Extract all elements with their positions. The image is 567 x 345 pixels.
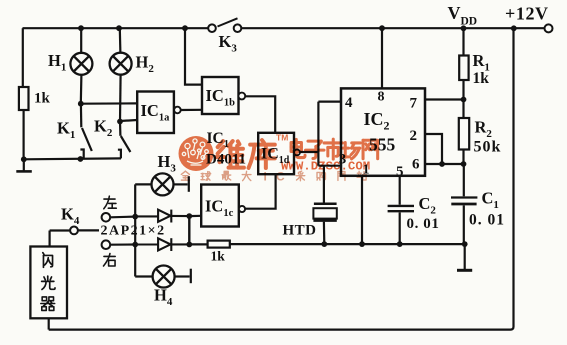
watermark text 场 — [342, 143, 360, 159]
watermark text 子 — [306, 141, 324, 158]
wire: ground return rail (bottom of 555 section) — [230, 243, 465, 245]
watermark text 市 — [324, 139, 342, 159]
watermark slogan 全球最大IC采购网站 — [181, 170, 366, 184]
wire: IC1d output node to 555 pins 3 and 4 — [300, 102, 341, 166]
svg-text:TM: TM — [276, 133, 288, 143]
label IC2 — [364, 109, 390, 133]
wire: bottom return rail to +12V right rail — [49, 28, 514, 329]
pin 2 — [410, 128, 418, 144]
switch K2 — [118, 122, 130, 159]
label 1k — [473, 70, 490, 87]
junction dot — [132, 242, 138, 248]
wire: K4 down to flasher box — [48, 231, 50, 247]
WATERMARK — [179, 133, 378, 184]
lamp H4 — [135, 269, 191, 284]
capacitor C2 — [388, 176, 414, 244]
junction dot H2 top — [116, 25, 122, 31]
wire: IC1a input 2 — [120, 120, 137, 121]
ground (right) — [457, 244, 472, 270]
wire: 左 to diode node — [110, 216, 135, 219]
wire: top supply rail left section — [23, 27, 209, 29]
label IC1 — [207, 130, 229, 150]
svg-text:4: 4 — [345, 95, 353, 111]
label 2AP21×2 — [101, 224, 166, 239]
resistor R2 — [459, 118, 469, 150]
svg-text:2AP21×2: 2AP21×2 — [101, 224, 166, 239]
lamp H1 — [70, 53, 92, 75]
svg-text:1k: 1k — [473, 70, 490, 87]
gate IC1a — [137, 92, 181, 134]
lamp H2 — [110, 53, 132, 75]
pin 4 — [345, 95, 353, 111]
label 0.01 — [469, 212, 505, 229]
wire: diode node to resistor 1k — [189, 243, 207, 245]
label 1k — [34, 91, 51, 107]
label 闪 — [43, 253, 53, 268]
label H2 — [136, 53, 155, 76]
wire: H1 bottom lead — [80, 75, 83, 104]
label IC1a — [141, 101, 171, 124]
label 555 — [369, 135, 396, 155]
wire: IC1b output to IC1d top input — [245, 96, 275, 133]
buzzer HTD — [313, 166, 336, 244]
node 左 terminal — [102, 213, 111, 222]
svg-text:0. 01: 0. 01 — [469, 212, 505, 229]
pin 3 — [339, 152, 347, 168]
wire: pin 8 to supply rail — [381, 28, 383, 88]
diode D1 (left turn) — [135, 210, 189, 223]
junction dot node H1/K1 — [78, 101, 84, 107]
svg-text:7: 7 — [410, 96, 418, 112]
wire: IC1a input 1 — [81, 102, 137, 104]
wire: flasher bottom lead — [48, 318, 50, 329]
label 1k — [211, 249, 226, 264]
wire: H2 top lead — [119, 28, 122, 53]
pin 6 — [412, 157, 420, 173]
svg-text:6: 6 — [412, 157, 420, 173]
gate IC1b — [202, 77, 245, 114]
wire: pin 7 to R1/R2 node — [425, 98, 464, 100]
wire: diode node into IC1c input — [189, 215, 201, 218]
label 器 — [41, 297, 55, 311]
pin 1 — [363, 163, 370, 178]
label K4 — [61, 205, 80, 228]
switch K1 — [80, 104, 91, 159]
svg-text:I: I — [264, 170, 267, 184]
resistor 1k (bottom, horizontal) — [208, 241, 230, 248]
label 光 — [42, 276, 55, 289]
watermark url WWW.DZSC.COM — [281, 159, 370, 173]
label IC1c — [205, 197, 234, 220]
wire: R1 bottom to node — [462, 80, 464, 118]
label VDD — [448, 3, 478, 28]
junction dot C1/ground — [462, 241, 468, 247]
node: +12V terminal — [545, 24, 553, 32]
wire: pin 1 down to ground rail — [361, 176, 363, 244]
wire: pin 6 to node — [425, 163, 464, 165]
label C1 — [482, 189, 499, 212]
junction dot pin7 node — [461, 97, 467, 103]
watermark text 库 — [249, 140, 275, 168]
wire: 右 to diode node — [110, 243, 135, 245]
switch K4 — [50, 227, 99, 235]
label K2 — [94, 117, 113, 140]
wire: H2 bottom lead — [119, 74, 122, 121]
wire: R2 bottom to pin6 node — [462, 150, 464, 165]
wire: K1 K2 common bottom wire — [24, 157, 121, 160]
svg-text:HTD: HTD — [283, 223, 317, 239]
flasher box 闪光器 — [30, 247, 67, 319]
gate IC1d — [258, 133, 300, 174]
svg-text:1k: 1k — [211, 249, 226, 264]
wire: top supply rail right section — [241, 27, 544, 29]
capacitor C1 — [451, 164, 477, 244]
junction dot H1 top — [78, 25, 84, 31]
junction dot pin2 tie — [439, 161, 445, 167]
wire: vertical tie between diode nodes — [188, 216, 190, 244]
junction dot node H2/K2 — [117, 119, 123, 125]
ground (left) — [16, 159, 32, 171]
label R2 — [475, 118, 493, 141]
junction dot C2 — [397, 241, 403, 247]
wire: left branch down to resistor — [22, 28, 24, 87]
junction dot pin8 rail — [379, 25, 385, 31]
svg-text:0. 01: 0. 01 — [407, 216, 440, 232]
label K3 — [219, 32, 238, 55]
junction dot HTD — [321, 241, 327, 247]
label IC1b — [206, 86, 236, 109]
pin 5 — [396, 164, 404, 180]
label R1 — [473, 51, 490, 74]
resistor 1k (left) — [19, 87, 29, 110]
wire: IC1a output to IC1b — [181, 109, 202, 111]
wire: top rail branch down to IC1b input — [185, 28, 202, 84]
watermark TM mark — [276, 133, 288, 143]
svg-text:1k: 1k — [34, 91, 51, 107]
junction dot K3 branch — [182, 25, 188, 31]
junction dot diode cathodes bottom — [186, 242, 192, 248]
svg-text:C: C — [276, 170, 285, 184]
junction dot pin6/R2 — [461, 161, 467, 167]
label +12V — [505, 4, 549, 24]
gate IC1c — [201, 185, 245, 227]
switch K3 — [208, 18, 241, 32]
junction dot pin1 — [359, 241, 365, 247]
pin 8 — [378, 90, 385, 105]
label 0.01 — [407, 216, 440, 232]
label D4011 — [206, 152, 246, 168]
watermark text 电 — [291, 139, 305, 157]
lamp H3 — [135, 176, 189, 192]
wire: rail down to R1 — [462, 28, 464, 55]
resistor R1 — [459, 56, 468, 81]
svg-text:2: 2 — [410, 128, 418, 144]
label H1 — [48, 51, 66, 74]
svg-text:50k: 50k — [474, 139, 502, 156]
watermark text 网 — [363, 140, 378, 158]
label K1 — [57, 119, 75, 142]
junction dot +12V rail top — [511, 25, 517, 31]
junction dot VDD/R1 — [461, 25, 467, 31]
wire: pin 2 tie to pin 6 — [425, 134, 442, 164]
svg-text:WWW.DZSC.COM: WWW.DZSC.COM — [281, 159, 370, 173]
diode D2 (right turn) — [135, 238, 189, 251]
pin 7 — [410, 96, 418, 112]
op IC2 555 timer box — [341, 88, 425, 175]
label H4 — [154, 286, 173, 309]
svg-text:+12V: +12V — [505, 4, 549, 24]
label C2 — [419, 194, 437, 217]
junction dot diode cathodes top — [186, 213, 192, 219]
svg-text:8: 8 — [378, 90, 385, 105]
node 右 terminal — [102, 240, 111, 249]
label HTD — [283, 223, 317, 239]
wire: resistor to ground node — [23, 110, 25, 159]
junction dot — [132, 214, 138, 220]
wire: node line H3 to H4 vertical — [134, 184, 136, 276]
watermark text 维 — [216, 141, 244, 168]
junction dot — [21, 156, 27, 162]
label IC1d — [261, 146, 290, 167]
label H3 — [158, 152, 177, 175]
label 右 — [104, 254, 116, 266]
label 左 — [104, 196, 116, 209]
wire: H1 top lead — [80, 28, 82, 53]
label 50k — [474, 139, 502, 156]
watermark logo circle — [179, 136, 214, 171]
junction dot on bottom wire — [78, 156, 84, 162]
wire: IC1c output to IC1d bottom input — [245, 174, 275, 209]
